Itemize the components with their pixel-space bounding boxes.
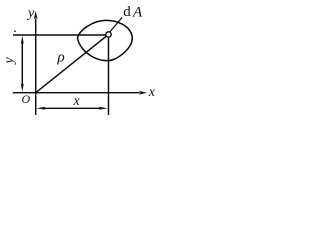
svg-text:y: y <box>26 6 35 21</box>
svg-text:A: A <box>132 5 143 21</box>
svg-text:ρ: ρ <box>57 50 65 66</box>
svg-text:d: d <box>123 4 131 20</box>
svg-text:x: x <box>73 94 81 109</box>
svg-text:x: x <box>148 85 156 100</box>
svg-text:y: y <box>2 57 17 66</box>
svg-text:O: O <box>22 92 31 106</box>
